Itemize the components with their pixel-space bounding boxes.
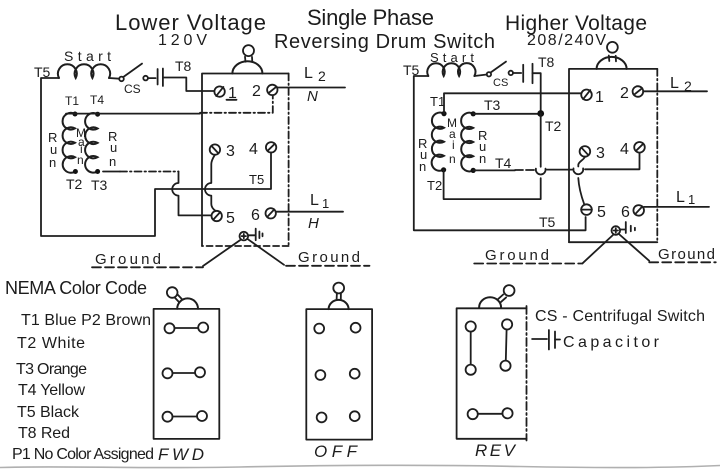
main winding run coil T4-T3 (left circuit) [85, 113, 98, 173]
svg-text:Single Phase: Single Phase [307, 5, 434, 30]
pin label 1 (left box) [227, 85, 238, 102]
label L2 (right) [670, 75, 692, 94]
terminal 4 screw (right box) [634, 142, 645, 153]
REV contacts row 3 (closed horizontal) [468, 408, 513, 419]
ground leader line left (right box) [474, 235, 613, 264]
ground screw (left box) [240, 232, 249, 241]
terminal 4 screw (left box) [266, 142, 276, 152]
svg-text:T3: T3 [91, 177, 108, 193]
OFF contacts row 1 (open) [314, 323, 360, 334]
svg-text:T2: T2 [427, 178, 442, 193]
terminal 2 screw (right box) [633, 86, 644, 97]
terminal 1 screw (left box) [214, 86, 224, 96]
label Run (right coil, right circuit) [478, 128, 487, 166]
svg-text:3: 3 [596, 145, 605, 162]
svg-text:n: n [479, 151, 486, 166]
ground leader line right (left box) [247, 239, 369, 266]
svg-text:T3: T3 [484, 97, 501, 113]
svg-text:T4: T4 [495, 155, 512, 171]
svg-text:L: L [670, 75, 679, 92]
wire T1/T4 to terminal 2 (left circuit) [66, 96, 273, 114]
OFF contacts row 3 (open) [317, 411, 360, 422]
junction dot T4 coil end (right) [471, 168, 476, 173]
svg-text:n: n [77, 153, 84, 167]
ground screw (right box) [612, 226, 621, 235]
svg-text:4: 4 [620, 141, 629, 158]
svg-text:1: 1 [595, 89, 604, 106]
REV handle [479, 285, 514, 307]
junction dot T2 (left) [73, 169, 78, 174]
terminal 5 screw (right box) [581, 204, 592, 215]
svg-text:T3 Orange: T3 Orange [16, 361, 87, 378]
svg-text:L: L [304, 65, 313, 82]
junction dot T4 (left) [95, 112, 100, 117]
label Main (left circuit) [76, 126, 86, 167]
svg-text:n: n [449, 152, 456, 166]
svg-text:CS - Centrifugal Switch: CS - Centrifugal Switch [535, 308, 705, 325]
wire T5: start winding to drum switch terminal 4 (left circuit) [41, 78, 271, 236]
svg-text:120V: 120V [158, 32, 209, 49]
svg-text:P1 No Color Assigned: P1 No Color Assigned [12, 446, 154, 463]
wire L2 lead (left box) [278, 87, 346, 89]
junction dot T3 coil end (right) [471, 111, 476, 116]
svg-text:n: n [109, 154, 116, 169]
svg-text:OFF: OFF [314, 442, 359, 461]
svg-text:2: 2 [620, 85, 629, 102]
svg-text:NEMA Color Code: NEMA Color Code [5, 278, 147, 298]
title: Higher Voltage 208/240V [505, 12, 647, 49]
label L1 (right) [676, 189, 695, 207]
wire terminal 3 to terminal 5 (left box, hops over T5 wire) [205, 155, 216, 211]
svg-text:T5: T5 [249, 172, 264, 187]
svg-text:T1: T1 [65, 94, 79, 108]
svg-text:T1 Blue P2 Brown: T1 Blue P2 Brown [21, 312, 151, 329]
svg-text:4: 4 [249, 141, 258, 158]
drum switch handle (left box) [232, 45, 262, 73]
main winding run coil T1-T2 (left circuit) [63, 113, 76, 173]
svg-text:REV: REV [475, 441, 517, 460]
junction dot T1 (right) [441, 111, 446, 116]
FWD handle [167, 287, 198, 309]
terminal 6 screw (left box) [266, 208, 276, 218]
svg-text:N: N [307, 88, 318, 105]
svg-text:L: L [310, 192, 319, 209]
title: Lower Voltage 120V [115, 10, 266, 49]
wire L1 lead (left box) [276, 211, 343, 213]
svg-text:CS: CS [124, 82, 141, 96]
svg-text:T2: T2 [545, 118, 562, 134]
drum switch REV diagram: enclosure [457, 306, 527, 441]
drum switch handle (right box) [597, 42, 627, 69]
svg-text:2: 2 [318, 68, 326, 84]
drum switch enclosure (left) [202, 74, 289, 247]
junction dot T1 (left) [73, 112, 78, 117]
svg-text:6: 6 [621, 204, 630, 221]
svg-text:T8 Red: T8 Red [18, 425, 70, 442]
svg-text:T2: T2 [66, 176, 83, 192]
svg-text:1: 1 [688, 192, 695, 207]
svg-text:T8: T8 [538, 54, 555, 70]
svg-text:2: 2 [684, 78, 692, 94]
wire T3 to junction (right circuit) [473, 113, 541, 115]
terminal 1 screw (right box) [581, 90, 592, 101]
svg-text:T5: T5 [539, 214, 556, 230]
svg-text:L: L [676, 189, 685, 206]
centrifugal switch CS (right circuit) [487, 62, 513, 77]
svg-text:i: i [452, 138, 455, 152]
FWD contacts row 1 (closed) [165, 323, 209, 334]
wire start winding to CS (left) [109, 77, 119, 80]
start winding coil (left circuit) [58, 64, 110, 78]
junction dot T2/T3 (right circuit) [537, 110, 544, 117]
drum switch enclosure (right) [569, 69, 657, 242]
junction dot T2 coil end (right) [441, 167, 446, 172]
ground symbol (right box) [620, 222, 635, 233]
label L1 (left) [310, 192, 329, 211]
OFF contacts row 2 (open) [316, 369, 360, 380]
OFF handle [329, 283, 349, 310]
ground leader line right (right box) [618, 234, 716, 263]
label Run (right coil, left circuit) [108, 129, 117, 169]
svg-text:n: n [419, 159, 426, 174]
svg-text:CS: CS [493, 77, 508, 89]
wire L2 lead (right box) [643, 90, 707, 92]
svg-text:FWD: FWD [158, 445, 204, 464]
label Main (right circuit) [447, 116, 457, 166]
svg-text:n: n [49, 155, 56, 170]
svg-text:H: H [308, 215, 319, 232]
label L2 (left) [304, 65, 326, 84]
FWD contacts row 3 (closed) [163, 411, 208, 422]
legend capacitor symbol [532, 330, 560, 350]
svg-text:1: 1 [322, 196, 329, 211]
FWD contacts row 2 (closed) [163, 367, 206, 378]
main winding run coil T1-T2 (right circuit) [432, 113, 444, 171]
svg-text:T1: T1 [430, 94, 445, 109]
terminal 2 screw (left box) [267, 85, 277, 95]
wire T2 to junction (right circuit, hops over T4 wire) [444, 114, 546, 200]
svg-text:T4 Yellow: T4 Yellow [18, 382, 85, 399]
wire T2/T3 to terminal 5 (left circuit, hops over T5 wire) [103, 172, 211, 216]
ground leader line left (left box) [92, 240, 241, 268]
svg-text:T4: T4 [90, 93, 104, 107]
title: Single Phase Reversing Drum Switch [274, 5, 495, 53]
centrifugal switch CS (left circuit) [119, 64, 148, 82]
terminal 6 screw (right box) [633, 205, 644, 216]
REV contacts rows 1-2 (closed vertical) [466, 319, 513, 375]
ground symbol (left box) [248, 229, 262, 241]
wire terminal 3 to terminal 5 (right box, hops over T4 wire) [573, 157, 585, 205]
drum switch FWD diagram: enclosure [154, 309, 220, 439]
svg-text:T5 Black: T5 Black [17, 404, 80, 421]
label Run (left coil, left circuit) [48, 130, 57, 170]
svg-text:208/240V: 208/240V [527, 32, 606, 49]
label Run (left coil, right circuit) [418, 136, 427, 174]
svg-text:Capacitor: Capacitor [563, 334, 660, 351]
drum switch OFF diagram: enclosure [306, 309, 372, 440]
junction dot T3 (left) [95, 169, 100, 174]
svg-text:2: 2 [252, 83, 261, 100]
wire capacitor T8 lead to T2/T3 junction (right circuit) [533, 73, 541, 113]
main winding run coil T3-T4 (right circuit) [461, 113, 473, 172]
svg-text:5: 5 [597, 204, 606, 221]
capacitor (right circuit) [513, 64, 533, 83]
wire L1 lead (right box) [644, 206, 709, 208]
wire T4 to terminal 4 (right circuit) [473, 153, 639, 170]
svg-text:6: 6 [251, 207, 260, 224]
terminal 3 screw (right box) [580, 146, 591, 157]
svg-text:5: 5 [226, 210, 235, 227]
terminal 3 screw (left box) [210, 144, 220, 154]
wire capacitor to terminal 1 (left box) [163, 78, 214, 92]
wire T1 to terminal 1 (right circuit) [444, 93, 581, 113]
svg-text:T2 White: T2 White [17, 335, 85, 352]
svg-text:u: u [110, 140, 117, 155]
svg-text:Ground: Ground [658, 246, 715, 263]
capacitor (left circuit) [148, 69, 163, 87]
terminal 5 screw (left box) [212, 211, 222, 221]
svg-text:3: 3 [226, 143, 235, 160]
wire start winding to CS (right) [474, 75, 487, 77]
start winding coil (right circuit) [427, 63, 475, 76]
wire T5: start winding to terminal 5 (right circuit) [414, 76, 586, 230]
svg-text:T8: T8 [175, 58, 192, 74]
